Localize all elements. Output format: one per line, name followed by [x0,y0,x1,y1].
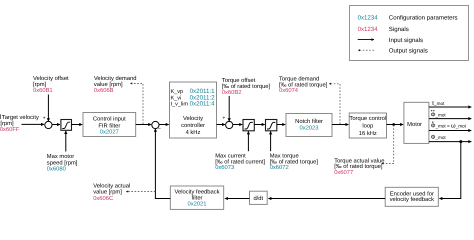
svg-text:τ_mot: τ_mot [432,100,445,107]
wire: S1 to limiter L1 [52,124,60,126]
wire: L3 to notch filter [277,124,285,126]
svg-text:0x1234: 0x1234 [358,26,379,33]
svg-text:d/dt: d/dt [253,195,263,202]
block: Motor [404,102,429,143]
legend entry: configuration parameters [358,15,458,22]
wire: position feedback down and into encoder [439,142,460,199]
limiter L3 (max torque) [266,120,277,131]
wire: motor output position [429,141,471,143]
svg-text:0x6072: 0x6072 [270,164,289,171]
wire: d/dt to velocity feedback filter [225,198,250,200]
dashed output: torque actual value tap [382,125,394,164]
svg-text:Configuration parameters: Configuration parameters [389,15,458,22]
svg-text:0x6080: 0x6080 [47,166,66,173]
node: plus sign at S1 [43,115,46,121]
wire: max current arrow up into L2 [247,131,249,151]
wire: motor output acceleration [429,118,471,120]
wire: velocity controller to summing junction S3 [217,124,226,126]
label: phi_mot [431,134,447,141]
wire: motor output torque [429,106,471,108]
svg-text:0x2021: 0x2021 [187,201,206,208]
svg-text:0x2023: 0x2023 [299,125,318,132]
svg-text:value [rpm]: value [rpm] [93,188,122,195]
svg-text:Motor: Motor [407,122,422,128]
svg-text:0x2011:4: 0x2011:4 [190,100,216,107]
summing junction S2 [152,121,159,128]
wire: target velocity into summing junction S1 [22,123,45,125]
wire: torque control loop to motor [387,124,404,126]
svg-text:4 kHz: 4 kHz [186,129,201,136]
block: d/dt [250,191,268,204]
svg-text:0x60B1: 0x60B1 [33,87,53,94]
label: Torque demand 0x6074 [279,75,328,94]
wire: L2 to limiter L3 [254,124,264,126]
svg-text:Velocity: Velocity [183,115,203,122]
wire: encoder to d/dt [268,198,385,200]
svg-text:0x60B2: 0x60B2 [222,89,242,96]
node: minus sign at S2 [158,127,161,133]
legend entry: signals [358,26,409,33]
svg-text:0x606B: 0x606B [94,87,114,94]
summing junction S3 [226,121,233,128]
svg-text:Max motor: Max motor [47,154,74,160]
svg-text:−: − [158,127,161,133]
limiter L2 (max current) [243,120,254,131]
svg-text:K_vp: K_vp [171,89,184,95]
svg-text:Notch filter: Notch filter [295,118,323,125]
wire: notch filter to torque control loop [332,124,348,126]
legend box [350,6,469,61]
svg-text:0x1234: 0x1234 [358,15,379,22]
wire: feedback filter up into S2 [155,129,170,199]
summing junction S1 [45,121,52,128]
svg-text:16 kHz: 16 kHz [359,130,377,137]
wire: max motor speed arrow up into L1 [65,131,67,152]
svg-text:0x6074: 0x6074 [279,87,299,94]
svg-text:FIR filter: FIR filter [98,123,120,130]
wire: torque offset arrow down into S3 [228,96,230,121]
wire: FIR filter to summing junction S2 [136,124,152,126]
wire: L1 to FIR filter [72,124,83,126]
svg-text:loop: loop [362,123,373,130]
block: Velocity feedback filter 0x2021 [170,186,223,209]
block: Torque control loop 16 kHz [349,113,386,138]
svg-text:Input signals: Input signals [389,37,423,44]
label: tau_mot [432,100,445,107]
svg-text:0x606C: 0x606C [93,195,113,202]
wire: S3 to limiter L2 [233,124,242,126]
svg-text:Velocity feedback: Velocity feedback [174,188,219,195]
label: Max current 0x6073 [215,154,265,172]
block: Encoder used for velocity feedback [385,187,438,206]
svg-text:Control input: Control input [93,116,126,123]
svg-text:filter: filter [192,195,203,202]
wire: max torque arrow up into L3 [270,131,272,151]
dashed output: velocity actual value tap [126,191,155,193]
label: Torque offset 0x60B2 [222,77,271,96]
svg-text:K_vi: K_vi [171,95,182,101]
node: junction dot position feedback [459,140,462,143]
svg-text:0x6073: 0x6073 [215,164,234,171]
legend entry: output signals arrow [358,48,428,55]
label: phi-dot_mot = omega_mot [431,122,467,130]
block: Control input FIR filter 0x2027 [83,113,136,137]
label: Torque actual value 0x6077 [334,157,384,176]
svg-text:+: + [43,115,46,121]
svg-text:speed [rpm]: speed [rpm] [47,159,78,166]
svg-text:0x6077: 0x6077 [334,169,353,176]
wire: motor output speed [429,130,471,132]
svg-text:controller: controller [181,122,205,129]
label: Target velocity 0x60FF [0,114,39,133]
dashed output: velocity demand value tap [130,83,143,124]
label: Velocity demand value 0x606B [94,75,137,94]
svg-text:Torque control: Torque control [349,115,386,122]
legend entry: input signals arrow [358,37,423,44]
label: Velocity offset 0x60B1 [33,75,69,94]
block: Velocity controller 4 kHz 0x2011 [170,82,217,138]
svg-text:Φ_mot: Φ_mot [431,134,447,141]
limiter L1 (max motor speed) [61,120,72,131]
wire: S2 to velocity controller [159,124,169,126]
svg-text:I_v_lim: I_v_lim [171,101,189,107]
svg-text:+: + [222,116,225,122]
node: plus sign at S3 [222,116,225,122]
wire: velocity offset arrow down into S1 [47,95,49,122]
svg-text:velocity feedback: velocity feedback [390,196,435,203]
block: Notch filter 0x2023 [286,114,332,137]
svg-text:0x60FF: 0x60FF [0,126,20,133]
dashed output: torque demand tap [329,84,340,124]
label: Max motor speed 0x6080 [47,154,78,172]
label: Velocity actual value 0x606C [93,183,130,202]
svg-text:Output signals: Output signals [389,48,428,55]
svg-text:Signals: Signals [389,26,409,33]
node: junction dot torque actual tap [392,123,395,126]
svg-text:Φ_mot: Φ_mot [431,111,447,118]
label: phi-double-dot_mot [431,110,447,118]
svg-text:0x2027: 0x2027 [100,129,119,136]
svg-text:Φ_mot = ω_mot: Φ_mot = ω_mot [431,123,467,130]
label: Max torque 0x6072 [270,154,319,172]
